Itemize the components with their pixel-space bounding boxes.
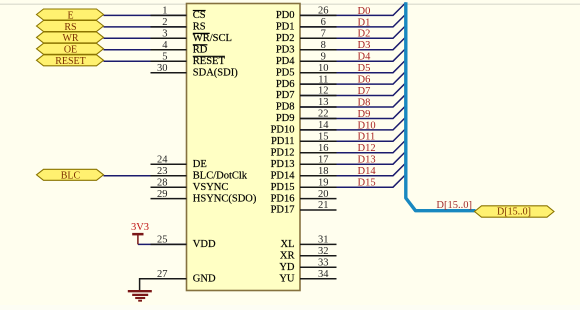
svg-text:3: 3: [162, 29, 167, 40]
svg-text:PD14: PD14: [271, 170, 296, 181]
svg-text:GND: GND: [193, 273, 216, 284]
net label D15: [358, 178, 376, 189]
ground symbol: [128, 291, 152, 301]
svg-text:23: 23: [157, 166, 168, 177]
pin name PD12: [271, 148, 295, 159]
svg-text:11: 11: [318, 74, 328, 85]
pin 16 number: [318, 143, 329, 154]
svg-text:PD17: PD17: [271, 205, 295, 216]
pin 6 number: [321, 17, 326, 28]
net label D3: [358, 40, 371, 51]
svg-text:WR/SCL: WR/SCL: [193, 33, 232, 44]
wire pin 12 (PD7) to bus, net D7: [300, 83, 406, 96]
svg-text:PD8: PD8: [276, 102, 295, 113]
pin name PD15: [271, 182, 295, 193]
svg-text:XR: XR: [280, 251, 295, 262]
svg-text:PD1: PD1: [276, 22, 295, 33]
svg-text:29: 29: [157, 189, 168, 200]
pin name GND: [193, 273, 216, 284]
wire pin 22 (PD9) to bus, net D9: [300, 106, 406, 119]
pin name PD3: [276, 44, 295, 55]
pin 21 stub wire: [300, 209, 337, 211]
svg-text:RESET: RESET: [193, 56, 226, 67]
svg-text:D10: D10: [358, 120, 376, 131]
pin 34 stub wire: [300, 278, 337, 280]
svg-text:VDD: VDD: [193, 239, 216, 250]
pin 21 number: [318, 200, 329, 211]
svg-text:5: 5: [162, 51, 167, 62]
pin name BLC/DotClk: [193, 170, 248, 181]
pin 15 number: [318, 132, 329, 143]
svg-text:22: 22: [318, 109, 329, 120]
svg-text:D15: D15: [358, 178, 376, 189]
svg-text:25: 25: [157, 235, 168, 246]
pin name PD1: [276, 22, 295, 33]
svg-text:PD4: PD4: [276, 56, 295, 67]
svg-text:SDA(SDI): SDA(SDI): [193, 67, 238, 78]
faint sheet border line: [0, 3, 580, 5]
svg-text:OE: OE: [64, 45, 77, 56]
pin 28 number: [157, 177, 168, 188]
wire from port RESET to pin 5: [104, 60, 187, 62]
svg-text:D0: D0: [358, 6, 371, 17]
pin 31 number: [318, 235, 329, 246]
svg-text:PD11: PD11: [271, 136, 295, 147]
wire pin 11 (PD6) to bus, net D6: [300, 71, 406, 84]
pin 4 number: [162, 40, 168, 51]
svg-text:D[15..0]: D[15..0]: [436, 200, 472, 211]
svg-text:6: 6: [321, 17, 326, 28]
net label D0: [358, 6, 371, 17]
svg-text:7: 7: [321, 29, 326, 40]
pin name PD7: [276, 90, 295, 101]
pin name PD2: [276, 33, 295, 44]
pin name PD13: [271, 159, 295, 170]
pin 25 number: [157, 235, 168, 246]
svg-text:BLC/DotClk: BLC/DotClk: [193, 170, 248, 181]
net label D4: [358, 52, 372, 63]
wire pin 17 (PD13) to bus, net D13: [300, 151, 406, 164]
svg-text:31: 31: [318, 235, 329, 246]
wire pin 15 (PD11) to bus, net D11: [300, 129, 406, 142]
pin name PD5: [276, 67, 295, 78]
wire from port WR to pin 3: [104, 37, 187, 39]
pin 31 stub wire: [300, 243, 337, 245]
pin name PD4: [276, 56, 295, 67]
svg-text:D3: D3: [358, 40, 371, 51]
pin name RS: [193, 22, 206, 33]
svg-text:D8: D8: [358, 97, 371, 108]
svg-text:19: 19: [318, 177, 329, 188]
svg-text:8: 8: [321, 40, 326, 51]
wire pin 16 (PD12) to bus, net D12: [300, 140, 406, 153]
net label D1: [358, 17, 371, 28]
net label D8: [358, 97, 371, 108]
svg-text:28: 28: [157, 177, 168, 188]
svg-text:3V3: 3V3: [131, 222, 149, 233]
net label D14: [358, 166, 377, 177]
svg-text:9: 9: [321, 51, 326, 62]
net label D13: [358, 155, 376, 166]
svg-text:D12: D12: [358, 143, 376, 154]
svg-text:PD10: PD10: [271, 125, 295, 136]
svg-text:D14: D14: [358, 166, 377, 177]
pin 33 stub wire: [300, 266, 337, 268]
pin 11 number: [318, 74, 328, 85]
data bus D[15..0]: [406, 2, 476, 211]
svg-text:PD2: PD2: [276, 33, 295, 44]
svg-text:D9: D9: [358, 109, 371, 120]
svg-text:D[15..0]: D[15..0]: [497, 207, 531, 218]
pin 28 stub wire: [151, 186, 187, 188]
svg-text:D4: D4: [358, 52, 372, 63]
svg-text:20: 20: [318, 189, 329, 200]
svg-text:RD: RD: [193, 44, 208, 55]
pin 27 number: [157, 269, 168, 280]
svg-text:PD9: PD9: [276, 113, 295, 124]
svg-text:WR: WR: [62, 33, 78, 44]
pin 29 number: [157, 189, 168, 200]
pin name PD9: [276, 113, 295, 124]
wire pin 18 (PD14) to bus, net D14: [300, 163, 406, 176]
svg-text:13: 13: [318, 97, 329, 108]
pin 29 stub wire: [151, 198, 187, 200]
svg-text:10: 10: [318, 63, 329, 74]
svg-text:XL: XL: [281, 239, 295, 250]
pin 32 stub wire: [300, 255, 337, 257]
net label D2: [358, 29, 371, 40]
port E: [37, 9, 104, 21]
pin name SDA(SDI): [193, 67, 238, 78]
net label D7: [358, 86, 371, 97]
op-amp/controller IC U1 body: [187, 4, 301, 291]
pin 5 number: [162, 51, 167, 62]
net label D5: [358, 63, 371, 74]
svg-text:PD5: PD5: [276, 67, 295, 78]
pin name PD11: [271, 136, 295, 147]
svg-text:24: 24: [157, 154, 168, 165]
svg-text:RS: RS: [193, 22, 206, 33]
svg-text:27: 27: [157, 269, 168, 280]
pin 20 number: [318, 189, 329, 200]
pin name CS: [193, 10, 206, 21]
pin name PD6: [276, 79, 295, 90]
pin 33 number: [318, 258, 329, 269]
svg-text:D7: D7: [358, 86, 371, 97]
pin name VSYNC: [193, 182, 229, 193]
svg-text:PD13: PD13: [271, 159, 295, 170]
pin 17 number: [318, 154, 329, 165]
svg-text:E: E: [67, 10, 73, 21]
pin 3 number: [162, 29, 167, 40]
svg-text:RS: RS: [64, 22, 76, 33]
wire pin 10 (PD5) to bus, net D5: [300, 60, 406, 73]
wire pin 8 (PD3) to bus, net D3: [300, 37, 406, 50]
pin 30 number: [157, 63, 168, 74]
svg-text:D6: D6: [358, 75, 371, 86]
svg-text:BLC: BLC: [61, 171, 81, 182]
wire pin 26 (PD0) to bus, net D0: [300, 3, 406, 16]
svg-text:VSYNC: VSYNC: [193, 182, 229, 193]
net label D11: [358, 132, 376, 143]
pin name PD10: [271, 125, 295, 136]
pin name PD0: [276, 10, 295, 21]
pin name YU: [279, 273, 295, 284]
port BLC: [37, 169, 104, 181]
svg-text:PD16: PD16: [271, 193, 295, 204]
svg-text:14: 14: [318, 120, 329, 131]
pin name XR: [280, 251, 295, 262]
svg-text:15: 15: [318, 132, 329, 143]
svg-text:PD7: PD7: [276, 90, 295, 101]
svg-text:16: 16: [318, 143, 329, 154]
pin 14 number: [318, 120, 329, 131]
svg-text:YU: YU: [279, 273, 295, 284]
pin 32 number: [318, 246, 329, 257]
svg-text:D5: D5: [358, 63, 371, 74]
pin name WR/SCL: [193, 33, 232, 44]
port D[15..0]: [475, 206, 555, 218]
wire from port E to pin 1: [104, 14, 187, 16]
svg-text:2: 2: [162, 17, 167, 28]
pin 22 number: [318, 109, 329, 120]
pin 2 number: [162, 17, 167, 28]
svg-text:CS: CS: [193, 10, 206, 21]
pin 24 stub wire: [151, 163, 187, 165]
wire pin 7 (PD2) to bus, net D2: [300, 26, 406, 39]
svg-text:21: 21: [318, 200, 329, 211]
svg-text:HSYNC(SDO): HSYNC(SDO): [193, 193, 257, 204]
svg-text:D1: D1: [358, 17, 371, 28]
pin name RESET: [193, 56, 226, 67]
pin name PD17: [271, 205, 295, 216]
svg-text:PD6: PD6: [276, 79, 295, 90]
wire pin 14 (PD10) to bus, net D10: [300, 117, 406, 130]
svg-text:12: 12: [318, 86, 329, 97]
wire pin 6 (PD1) to bus, net D1: [300, 14, 406, 27]
wire from port RS to pin 2: [104, 26, 187, 28]
pin name XL: [281, 239, 295, 250]
svg-text:PD3: PD3: [276, 44, 295, 55]
svg-text:4: 4: [162, 40, 168, 51]
power port 3V3: [131, 222, 149, 244]
wire pin 9 (PD4) to bus, net D4: [300, 48, 406, 61]
pin 34 number: [318, 269, 329, 280]
bottom margin strip: [0, 305, 580, 310]
wire from port OE to pin 4: [104, 49, 187, 51]
pin 8 number: [321, 40, 326, 51]
port WR: [37, 32, 104, 44]
svg-text:D13: D13: [358, 155, 376, 166]
svg-text:30: 30: [157, 63, 168, 74]
pin name HSYNC(SDO): [193, 193, 257, 204]
svg-text:PD12: PD12: [271, 148, 295, 159]
pin 30 stub wire: [151, 72, 187, 74]
wire pin 13 (PD8) to bus, net D8: [300, 94, 406, 107]
port OE: [37, 43, 104, 55]
pin 12 number: [318, 86, 329, 97]
pin 18 number: [318, 166, 329, 177]
pin name VDD: [193, 239, 216, 250]
port RESET: [37, 55, 104, 67]
pin 20 stub wire: [300, 198, 337, 200]
svg-text:33: 33: [318, 258, 329, 269]
svg-text:YD: YD: [279, 262, 295, 273]
pin name PD16: [271, 193, 295, 204]
wire ground to pin 27 (GND): [140, 279, 187, 291]
net label D[15..0] on bus: [436, 200, 472, 211]
pin 19 number: [318, 177, 329, 188]
pin 26 number: [318, 6, 329, 17]
pin 7 number: [321, 29, 326, 40]
svg-text:18: 18: [318, 166, 329, 177]
svg-text:17: 17: [318, 154, 329, 165]
pin name DE: [193, 159, 207, 170]
svg-text:D2: D2: [358, 29, 371, 40]
net label D10: [358, 120, 376, 131]
svg-text:PD15: PD15: [271, 182, 295, 193]
svg-text:26: 26: [318, 6, 329, 17]
wire 3V3 to pin 25 (VDD): [138, 243, 187, 245]
svg-text:34: 34: [318, 269, 329, 280]
pin 9 number: [321, 51, 326, 62]
pin name RD: [193, 44, 208, 55]
pin name PD8: [276, 102, 295, 113]
pin 23 number: [157, 166, 168, 177]
pin 1 number: [162, 6, 167, 17]
pin 13 number: [318, 97, 329, 108]
svg-text:1: 1: [162, 6, 167, 17]
svg-text:PD0: PD0: [276, 10, 295, 21]
svg-text:32: 32: [318, 246, 329, 257]
svg-text:DE: DE: [193, 159, 207, 170]
wire pin 19 (PD15) to bus, net D15: [300, 174, 406, 187]
svg-text:RESET: RESET: [55, 56, 86, 67]
net label D6: [358, 75, 371, 86]
port RS: [37, 21, 104, 33]
pin 10 number: [318, 63, 329, 74]
wire from port BLC to pin 23: [104, 175, 187, 177]
pin name YD: [279, 262, 295, 273]
pin 24 number: [157, 154, 168, 165]
svg-text:D11: D11: [358, 132, 376, 143]
pin name PD14: [271, 170, 296, 181]
net label D12: [358, 143, 376, 154]
net label D9: [358, 109, 371, 120]
